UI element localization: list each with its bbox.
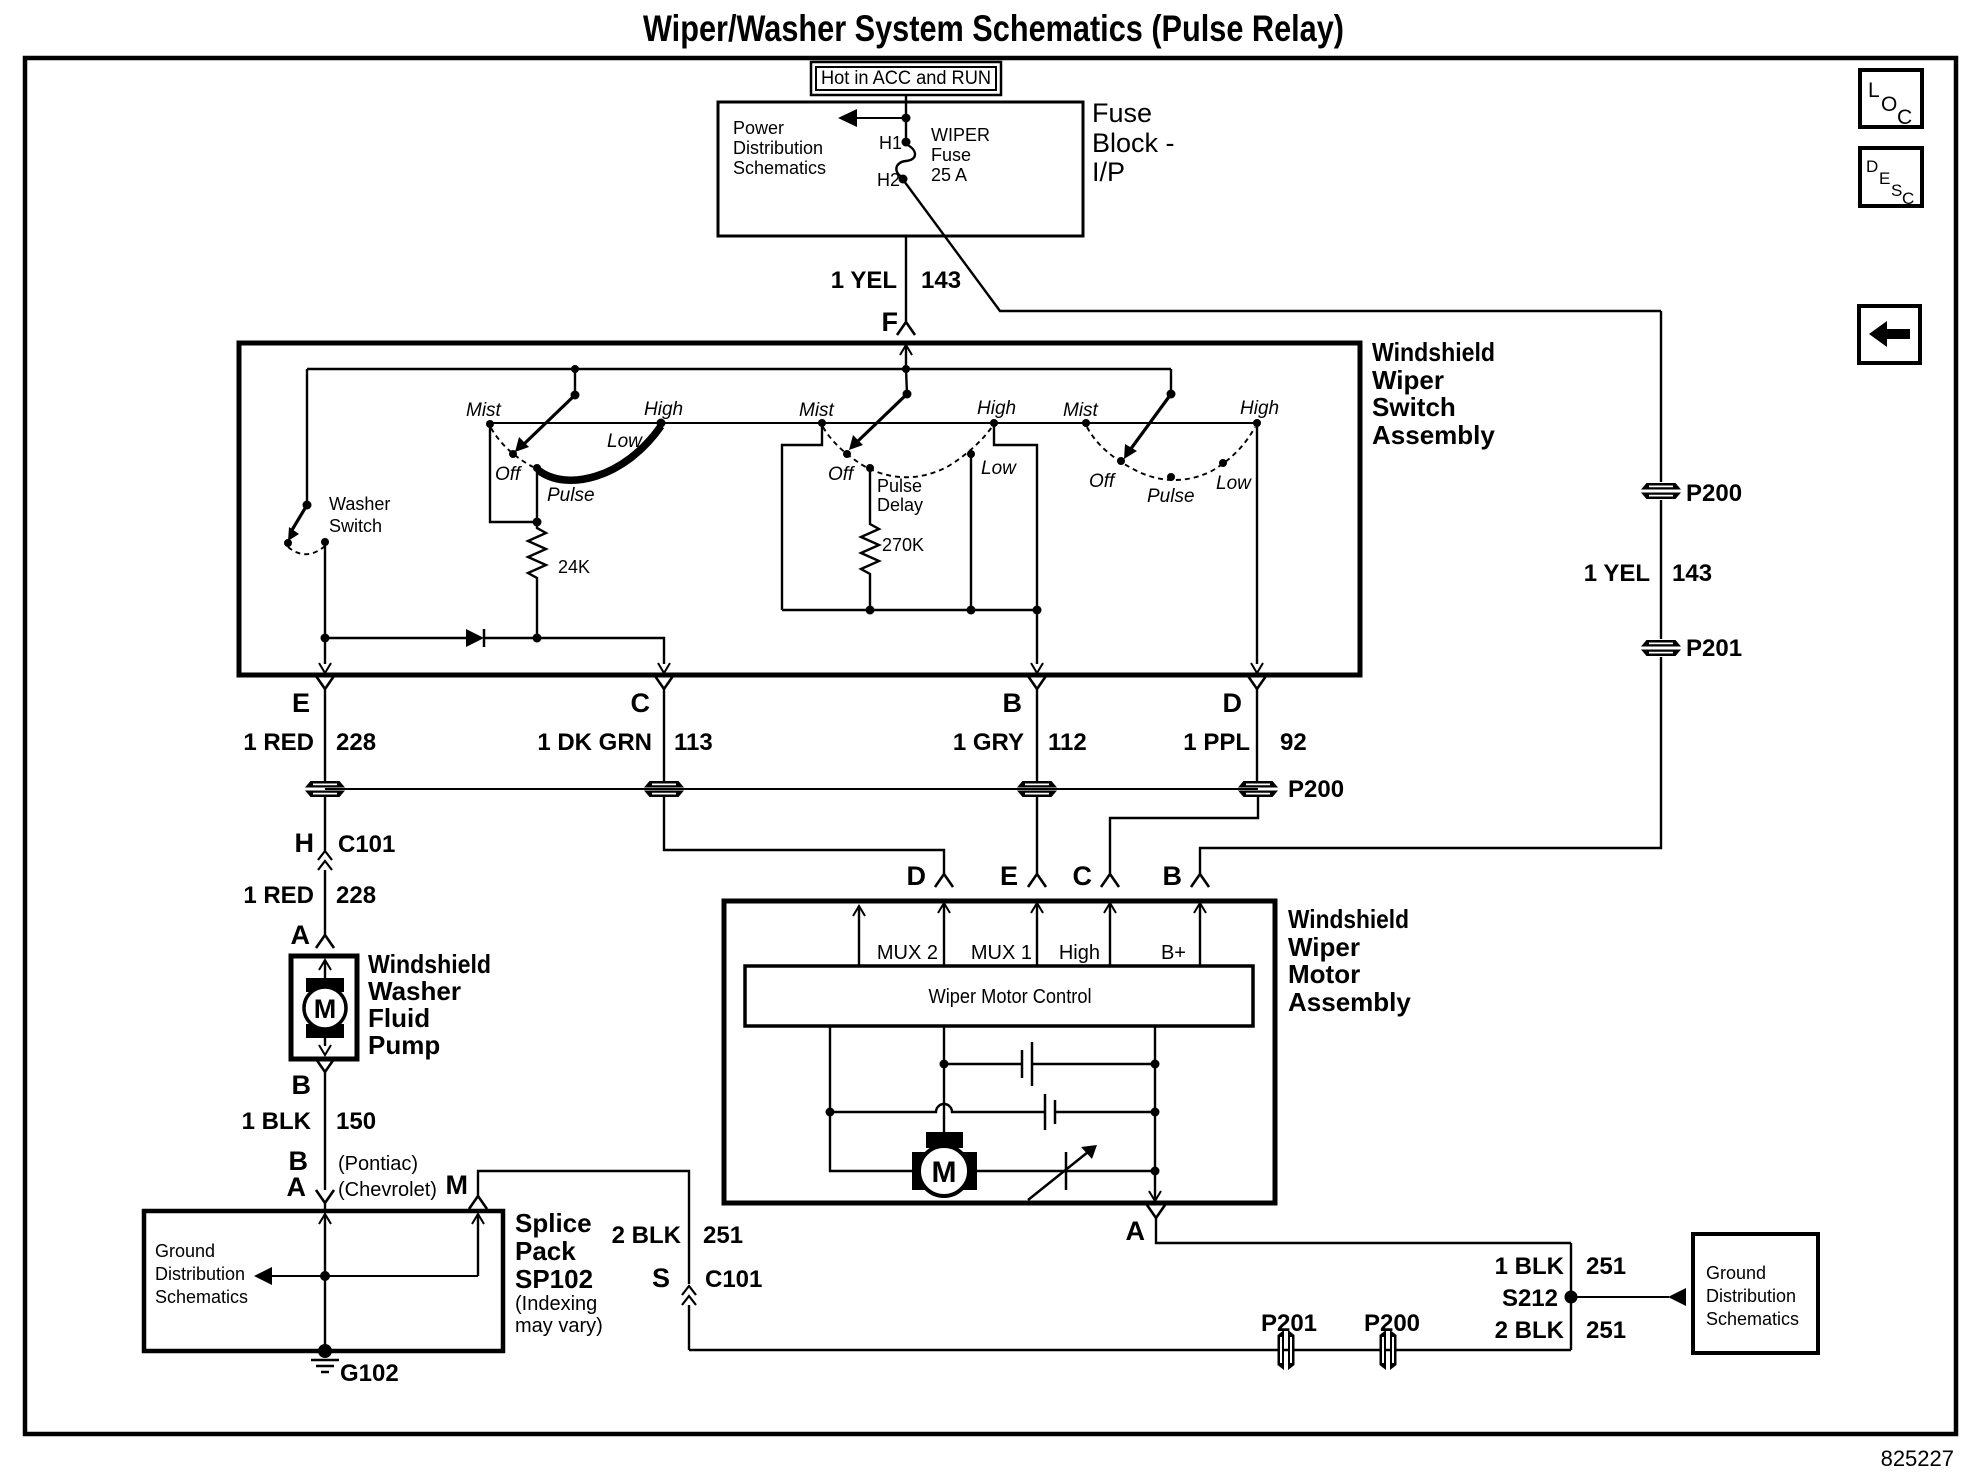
svg-text:143: 143 bbox=[1672, 560, 1712, 587]
connector P200 (E wire) bbox=[305, 781, 345, 797]
svg-text:228: 228 bbox=[336, 882, 376, 909]
node row1 right bbox=[1151, 1060, 1160, 1069]
node resistor bottom junction bbox=[533, 634, 542, 643]
resistor 270K bbox=[861, 468, 879, 610]
svg-text:270K: 270K bbox=[882, 535, 924, 555]
connector P200 (bottom) bbox=[1380, 1330, 1397, 1370]
wire label 1 BLK 251 bbox=[1495, 1253, 1626, 1280]
svg-text:A: A bbox=[291, 920, 311, 950]
svg-text:H: H bbox=[295, 828, 315, 858]
wire label 1 GRY 112 bbox=[953, 729, 1087, 756]
pin B exit bbox=[1031, 663, 1043, 673]
svg-text:Delay: Delay bbox=[877, 495, 923, 515]
contact rail wire Mist-High bbox=[490, 422, 1257, 424]
wire from Hot box to H1 bbox=[905, 95, 907, 142]
svg-text:Ground: Ground bbox=[1706, 1263, 1766, 1283]
ground distribution arrow (splice) bbox=[254, 1267, 478, 1285]
connector P201 (bottom) bbox=[1278, 1330, 1295, 1370]
node H2 bbox=[899, 175, 908, 184]
svg-text:Pulse: Pulse bbox=[1147, 486, 1195, 507]
wire label 1 PPL 92 bbox=[1183, 729, 1306, 756]
svg-text:1 RED: 1 RED bbox=[243, 729, 314, 756]
pin C exit bbox=[658, 663, 670, 673]
bottom ground wire bbox=[689, 1349, 1571, 1351]
svg-text:Schematics: Schematics bbox=[155, 1287, 248, 1307]
svg-text:Pump: Pump bbox=[368, 1030, 440, 1060]
resistor 24K bbox=[528, 522, 546, 638]
svg-text:Ground: Ground bbox=[155, 1241, 215, 1261]
node E junction bbox=[321, 634, 330, 643]
DESC button box bbox=[1860, 148, 1922, 208]
splice node bbox=[320, 1271, 330, 1281]
svg-text:High: High bbox=[977, 398, 1016, 419]
svg-text:Distribution: Distribution bbox=[733, 138, 823, 158]
splice S212 vertical bbox=[1570, 1243, 1572, 1350]
svg-text:Schematics: Schematics bbox=[733, 158, 826, 178]
wire washer to diode bbox=[325, 637, 466, 639]
pulse delay sub-box bottom bbox=[782, 609, 1037, 611]
washer switch arm bbox=[288, 505, 307, 541]
Windshield Wiper Motor Assembly label bbox=[1288, 904, 1411, 1017]
svg-text:M: M bbox=[446, 1170, 469, 1200]
svg-text:251: 251 bbox=[1586, 1253, 1626, 1280]
wire fuse output down to F bbox=[905, 236, 907, 322]
svg-text:G102: G102 bbox=[340, 1360, 399, 1387]
svg-text:Washer: Washer bbox=[329, 494, 390, 514]
fuse WIPER 25A element bbox=[896, 144, 915, 177]
washer switch pivot bbox=[303, 501, 312, 510]
svg-text:B: B bbox=[292, 1070, 312, 1100]
ground G102 bbox=[311, 1344, 399, 1387]
svg-text:Distribution: Distribution bbox=[155, 1264, 245, 1284]
washer switch feed wire bbox=[306, 369, 308, 505]
svg-text:Wiper Motor Control: Wiper Motor Control bbox=[929, 986, 1092, 1008]
left internal wire bbox=[830, 1026, 920, 1171]
svg-text:O: O bbox=[1881, 93, 1897, 116]
svg-text:251: 251 bbox=[1586, 1317, 1626, 1344]
svg-text:150: 150 bbox=[336, 1108, 376, 1135]
internal stub wire with arrow bbox=[853, 906, 865, 916]
connector P200 (right wire) bbox=[1641, 483, 1681, 499]
washer switch dashed arc bbox=[288, 546, 325, 554]
Windshield Wiper Switch Assembly label bbox=[1372, 337, 1495, 450]
Wiper Motor Control box bbox=[745, 966, 1253, 1026]
wire down to motor pin B bbox=[1200, 657, 1661, 874]
svg-text:High: High bbox=[1240, 398, 1279, 419]
pin D exit bbox=[1251, 663, 1263, 673]
Fuse Block - I/P label bbox=[1092, 98, 1175, 187]
svg-text:L: L bbox=[1868, 79, 1880, 102]
svg-text:112: 112 bbox=[1048, 729, 1087, 756]
svg-text:M: M bbox=[932, 1156, 957, 1189]
svg-text:B+: B+ bbox=[1161, 942, 1186, 964]
svg-text:may vary): may vary) bbox=[515, 1315, 603, 1337]
node junction on H1 wire bbox=[902, 114, 911, 123]
svg-text:143: 143 bbox=[921, 267, 961, 294]
svg-text:Switch: Switch bbox=[329, 516, 382, 536]
svg-text:1 YEL: 1 YEL bbox=[1584, 560, 1650, 587]
wire label 1 BLK 150 bbox=[242, 1108, 376, 1135]
svg-text:1 BLK: 1 BLK bbox=[242, 1108, 312, 1135]
node row2 right bbox=[1151, 1108, 1160, 1117]
svg-text:Low: Low bbox=[1216, 473, 1252, 494]
svg-text:WIPER: WIPER bbox=[931, 125, 990, 145]
svg-text:1 PPL: 1 PPL bbox=[1183, 729, 1250, 756]
svg-text:Pack: Pack bbox=[515, 1236, 576, 1266]
svg-text:Windshield: Windshield bbox=[1372, 337, 1495, 367]
group3 contacts bbox=[1082, 419, 1090, 427]
arrow to power distribution bbox=[838, 109, 906, 127]
wire label 2 BLK 251 bbox=[1495, 1317, 1626, 1344]
wire label 1 DK GRN 113 bbox=[537, 729, 712, 756]
LOC button box bbox=[1860, 70, 1922, 129]
wire C to motor pin D bbox=[664, 797, 944, 874]
svg-text:Schematics: Schematics bbox=[1706, 1309, 1799, 1329]
svg-text:Washer: Washer bbox=[368, 976, 461, 1006]
wire label 1 YEL 143 (top) bbox=[831, 267, 961, 294]
svg-text:C: C bbox=[1902, 189, 1914, 208]
splice pack label bbox=[515, 1208, 603, 1337]
node row2 left bbox=[826, 1108, 835, 1117]
svg-text:A: A bbox=[287, 1172, 307, 1202]
svg-text:Wiper: Wiper bbox=[1288, 932, 1360, 962]
group1 thick Low arc bbox=[538, 426, 661, 480]
svg-text:228: 228 bbox=[336, 729, 376, 756]
svg-text:Windshield: Windshield bbox=[368, 949, 491, 979]
svg-text:Wiper: Wiper bbox=[1372, 365, 1444, 395]
Splice Pack SP102 box bbox=[144, 1211, 503, 1351]
arrow to ground distribution bbox=[1571, 1288, 1686, 1306]
svg-text:H2: H2 bbox=[877, 170, 900, 190]
svg-text:Splice: Splice bbox=[515, 1208, 592, 1238]
svg-text:1 RED: 1 RED bbox=[243, 882, 314, 909]
splice S212 bbox=[1565, 1291, 1578, 1304]
wire E to C101 bbox=[324, 797, 326, 851]
svg-text:S: S bbox=[1891, 181, 1902, 200]
node on bus (from F) bbox=[902, 365, 910, 373]
svg-text:(Indexing: (Indexing bbox=[515, 1293, 597, 1315]
wire 1 YEL 143 right side vertical bbox=[1660, 311, 1662, 482]
wire label 1 RED 228 (lower) bbox=[243, 882, 376, 909]
svg-text:Hot in ACC and RUN: Hot in ACC and RUN bbox=[821, 68, 991, 89]
back arrow button box bbox=[1859, 306, 1920, 363]
right internal wire to pin A bbox=[1154, 1026, 1156, 1201]
svg-text:Fluid: Fluid bbox=[368, 1003, 430, 1033]
svg-text:Mist: Mist bbox=[1063, 400, 1099, 421]
svg-text:Assembly: Assembly bbox=[1372, 420, 1495, 450]
svg-text:Fuse: Fuse bbox=[931, 145, 971, 165]
node row3 right bbox=[1151, 1167, 1160, 1176]
node on bus (group1 pivot feed) bbox=[571, 365, 579, 373]
wire B to motor pin E bbox=[1036, 797, 1038, 874]
svg-text:MUX 1: MUX 1 bbox=[971, 942, 1032, 964]
pulse delay sub-box right/top bbox=[994, 425, 1037, 610]
group2 pivot bbox=[903, 390, 912, 399]
svg-text:Pulse: Pulse bbox=[547, 485, 595, 506]
svg-text:P201: P201 bbox=[1261, 1310, 1317, 1337]
svg-text:825227: 825227 bbox=[1881, 1446, 1954, 1471]
svg-text:Motor: Motor bbox=[1288, 959, 1360, 989]
svg-text:C: C bbox=[631, 688, 651, 718]
center internal wire bbox=[943, 1026, 945, 1138]
nodes on sub-box bottom bbox=[866, 606, 875, 615]
svg-text:1 BLK: 1 BLK bbox=[1495, 1253, 1565, 1280]
group1 Mist drop wire bbox=[490, 424, 537, 522]
svg-text:B: B bbox=[1003, 688, 1023, 718]
svg-text:Switch: Switch bbox=[1372, 392, 1456, 422]
group2 contacts bbox=[818, 419, 826, 427]
svg-text:B: B bbox=[1163, 861, 1183, 891]
Windshield Washer Fluid Pump label bbox=[368, 949, 491, 1060]
svg-text:E: E bbox=[292, 688, 310, 718]
svg-text:Off: Off bbox=[495, 464, 522, 485]
wire B exit drop bbox=[1036, 610, 1038, 664]
Ground Distribution Schematics label (splice) bbox=[155, 1241, 248, 1307]
svg-text:Low: Low bbox=[981, 458, 1017, 479]
pin E exit bbox=[319, 663, 331, 673]
pin labels MUX2 MUX1 High B+ bbox=[877, 942, 1186, 964]
svg-text:Distribution: Distribution bbox=[1706, 1286, 1796, 1306]
group3 position labels bbox=[1063, 398, 1279, 507]
wire label 1 YEL 143 (right) bbox=[1584, 560, 1712, 587]
svg-text:Assembly: Assembly bbox=[1288, 987, 1411, 1017]
capacitor C1 bbox=[944, 1042, 1155, 1086]
group1 switch arm bbox=[515, 395, 575, 452]
diode bbox=[466, 629, 537, 647]
svg-text:251: 251 bbox=[703, 1222, 743, 1249]
wire label 2 BLK 251 bbox=[612, 1222, 743, 1249]
svg-text:MUX 2: MUX 2 bbox=[877, 942, 938, 964]
group1 pivot bbox=[571, 391, 580, 400]
svg-text:A: A bbox=[1126, 1216, 1146, 1246]
svg-text:2 BLK: 2 BLK bbox=[612, 1222, 682, 1249]
svg-text:P201: P201 bbox=[1686, 635, 1742, 662]
connector P200 (D wire) bbox=[1238, 781, 1278, 797]
svg-text:113: 113 bbox=[674, 729, 713, 756]
group1 dashed arc Mist-Off-Pulse bbox=[491, 428, 533, 467]
svg-text:High: High bbox=[1059, 942, 1100, 964]
row2 wire with hop and capacitor C2 bbox=[830, 1094, 1155, 1130]
svg-text:C101: C101 bbox=[705, 1266, 762, 1293]
wire to C exit bbox=[537, 638, 664, 664]
svg-text:H1: H1 bbox=[879, 133, 902, 153]
washer switch contacts bbox=[284, 539, 292, 547]
wire D exit drop (High) bbox=[1256, 423, 1258, 664]
wire E exit drop bbox=[324, 638, 326, 664]
wire washer contact to E bbox=[324, 544, 326, 638]
pulse delay sub-box left/top bbox=[782, 425, 822, 610]
svg-text:Windshield: Windshield bbox=[1288, 904, 1409, 934]
svg-text:Pulse: Pulse bbox=[877, 476, 922, 496]
wire H2 diagonal to right side bbox=[904, 181, 1661, 311]
Ground Distribution Schematics box (right) bbox=[1693, 1234, 1818, 1353]
svg-text:D: D bbox=[907, 861, 927, 891]
svg-text:24K: 24K bbox=[558, 557, 590, 577]
connector link line P200 bbox=[325, 788, 1258, 790]
svg-text:SP102: SP102 bbox=[515, 1264, 593, 1294]
group2 Low drop bbox=[970, 454, 972, 610]
wiper motor M2 bbox=[912, 1132, 977, 1196]
svg-text:I/P: I/P bbox=[1092, 157, 1125, 187]
wire label 1 RED 228 bbox=[243, 729, 376, 756]
splice wire from pump bbox=[319, 1214, 331, 1224]
svg-text:Off: Off bbox=[1089, 471, 1116, 492]
node row1 left bbox=[940, 1060, 949, 1069]
washer pump motor M1 bbox=[304, 960, 346, 1055]
wire M up and over to S bbox=[478, 1171, 689, 1284]
svg-text:P200: P200 bbox=[1288, 776, 1344, 803]
group3 pivot feed bbox=[1170, 369, 1172, 394]
svg-text:C: C bbox=[1073, 861, 1093, 891]
group2 switch arm bbox=[849, 394, 907, 450]
svg-text:E: E bbox=[1000, 861, 1018, 891]
wire D to motor pin C bbox=[1110, 797, 1258, 874]
group1 pivot feed bbox=[574, 369, 576, 395]
connector P201 (right wire) bbox=[1641, 640, 1681, 656]
group2 pivot feed bbox=[906, 369, 907, 394]
svg-text:Power: Power bbox=[733, 118, 784, 138]
group2 dashed arc bbox=[823, 427, 992, 477]
svg-text:E: E bbox=[1879, 169, 1890, 188]
svg-text:High: High bbox=[644, 399, 683, 420]
node group1 resistor top bbox=[533, 518, 542, 527]
Windshield Wiper Switch Assembly box bbox=[239, 343, 1360, 675]
svg-text:P200: P200 bbox=[1686, 480, 1742, 507]
svg-text:D: D bbox=[1866, 157, 1878, 176]
svg-text:Mist: Mist bbox=[466, 400, 502, 421]
group1 contacts bbox=[486, 420, 494, 428]
svg-text:Off: Off bbox=[828, 464, 855, 485]
svg-text:M: M bbox=[314, 994, 337, 1024]
variable resistor bbox=[969, 1145, 1155, 1200]
group1 position labels bbox=[466, 399, 683, 506]
svg-text:P200: P200 bbox=[1364, 1310, 1420, 1337]
group3 switch arm bbox=[1124, 394, 1171, 459]
svg-text:D: D bbox=[1223, 688, 1243, 718]
svg-text:S212: S212 bbox=[1502, 1285, 1558, 1312]
svg-text:(Pontiac): (Pontiac) bbox=[338, 1153, 418, 1175]
group3 dashed arc bbox=[1087, 427, 1255, 480]
svg-text:Fuse: Fuse bbox=[1092, 98, 1152, 128]
svg-text:1 GRY: 1 GRY bbox=[953, 729, 1024, 756]
svg-text:1 YEL: 1 YEL bbox=[831, 267, 897, 294]
group3 pivot bbox=[1167, 390, 1176, 399]
connector P200 (B wire) bbox=[1017, 781, 1057, 797]
Fuse Block - I/P box bbox=[718, 102, 1083, 236]
group2 position labels bbox=[799, 398, 1017, 485]
svg-text:C: C bbox=[1897, 106, 1912, 129]
svg-text:C101: C101 bbox=[338, 831, 395, 858]
svg-text:Block -: Block - bbox=[1092, 128, 1175, 158]
internal feed bus wire bbox=[307, 368, 1171, 370]
svg-text:S: S bbox=[652, 1263, 670, 1293]
svg-text:(Chevrolet): (Chevrolet) bbox=[338, 1179, 437, 1201]
Power Distribution Schematics label bbox=[733, 118, 826, 178]
connector P200 (C wire) bbox=[644, 781, 684, 797]
svg-text:2 BLK: 2 BLK bbox=[1495, 1317, 1565, 1344]
svg-text:1 DK GRN: 1 DK GRN bbox=[537, 729, 652, 756]
splice wire from M bbox=[472, 1214, 484, 1224]
svg-text:25 A: 25 A bbox=[931, 165, 967, 185]
svg-text:Wiper/Washer System Schematics: Wiper/Washer System Schematics (Pulse Re… bbox=[643, 8, 1344, 49]
svg-text:F: F bbox=[882, 307, 899, 337]
svg-text:Mist: Mist bbox=[799, 400, 835, 421]
node H1 bbox=[902, 138, 911, 147]
svg-text:92: 92 bbox=[1280, 729, 1307, 756]
group1 Pulse drop wire bbox=[536, 468, 538, 522]
Windshield Washer Fluid Pump box bbox=[291, 956, 357, 1059]
Windshield Wiper Motor Assembly box bbox=[724, 901, 1275, 1203]
Hot in ACC and RUN box bbox=[811, 62, 1001, 95]
